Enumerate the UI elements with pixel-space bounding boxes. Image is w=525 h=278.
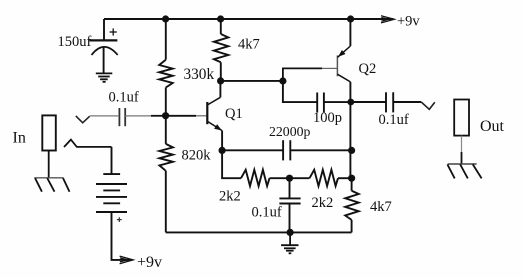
node collector 2k2 — [348, 175, 355, 182]
+9v arrow top — [381, 16, 394, 23]
svg-text:100p: 100p — [313, 110, 342, 126]
capacitor C 100p — [283, 81, 351, 112]
wire rail to 330k — [165, 19, 167, 60]
svg-text:Q1: Q1 — [225, 106, 243, 122]
wire hook down to battery — [111, 147, 113, 174]
node Q1 collector — [217, 77, 224, 84]
wire 4k7 to collector node — [220, 62, 222, 81]
In hook to battery — [64, 140, 112, 147]
svg-text:2k2: 2k2 — [312, 195, 334, 211]
node rail-4k7 — [217, 15, 224, 22]
wire Out sleeve to ground — [461, 136, 463, 164]
+9v arrow bottom — [120, 256, 134, 264]
svg-text:Out: Out — [480, 118, 505, 135]
svg-text:330k: 330k — [184, 66, 215, 83]
jack Out body — [454, 100, 469, 136]
node rail Q2 emitter — [347, 15, 354, 22]
wire base node to 820k — [165, 116, 167, 144]
resistor R 2k2 left — [241, 170, 270, 186]
capacitor C 0.1uf mid — [279, 178, 300, 232]
svg-text:820k: 820k — [182, 148, 212, 164]
output hook — [421, 102, 435, 109]
node 22000p right — [348, 147, 355, 154]
capacitor C 0.1uf input — [76, 108, 166, 126]
wire 2k2 right to collector line — [338, 177, 352, 179]
node Q2 base — [279, 77, 286, 84]
svg-text:Q2: Q2 — [359, 61, 377, 77]
node Q1 emitter — [219, 147, 226, 154]
resistor R 2k2 right — [310, 170, 339, 186]
svg-text:4k7: 4k7 — [238, 37, 260, 53]
wire center node to 2k2 right — [290, 177, 310, 179]
node Q2 collector output — [347, 99, 354, 106]
wire 150uf feed — [103, 19, 105, 40]
wire In sleeve to ground — [48, 151, 50, 178]
polarity plus battery — [117, 217, 122, 222]
capacitor C 22000p — [283, 140, 352, 160]
ground earth under 150uf — [96, 73, 113, 81]
svg-text:150uf: 150uf — [58, 34, 92, 50]
node Q1 base — [162, 112, 169, 119]
svg-text:+9v: +9v — [137, 254, 162, 271]
jack In body — [42, 115, 56, 150]
wire emitter to 22000p — [222, 149, 283, 151]
wire emitter down to 2k2 row — [222, 150, 241, 178]
svg-text:4k7: 4k7 — [370, 199, 392, 215]
wire bottom rail — [166, 231, 352, 233]
wire base node up to Q2 — [283, 68, 337, 81]
battery B1 9v — [96, 174, 127, 212]
wire 2k2 to center node — [270, 177, 290, 179]
wire +9v top rail — [104, 18, 393, 20]
resistor R 4k7 lower — [345, 178, 359, 232]
svg-text:In: In — [13, 130, 26, 147]
transistor Q2 — [337, 19, 350, 82]
node ground bottom — [287, 229, 294, 236]
svg-text:0.1uf: 0.1uf — [252, 205, 282, 221]
wire base node to Q1 — [166, 115, 207, 117]
wire 330k to base node — [165, 88, 167, 116]
wire battery to +9v arrow — [112, 212, 133, 260]
resistor R 4k7 upper — [214, 34, 228, 62]
svg-text:0.1uf: 0.1uf — [379, 112, 409, 128]
svg-text:+9v: +9v — [397, 14, 420, 30]
ground chassis Out — [447, 164, 481, 178]
capacitor C 150uf — [89, 40, 117, 73]
svg-text:2k2: 2k2 — [219, 189, 241, 205]
wire rail to 4k7 — [220, 19, 222, 34]
wire Q2 collector line — [349, 82, 351, 178]
svg-text:0.1uf: 0.1uf — [109, 90, 139, 106]
resistor R 330k — [159, 60, 173, 88]
ground chassis In — [34, 178, 69, 192]
wire Q1 collector to Q2 base node — [221, 80, 283, 82]
polarity plus 150uf — [110, 28, 117, 35]
node rail-330k — [162, 15, 169, 22]
transistor Q1 — [207, 81, 222, 150]
svg-text:22000p: 22000p — [269, 124, 310, 139]
resistor R 820k — [159, 144, 173, 171]
capacitor C 0.1uf output — [351, 92, 421, 112]
wire 820k to bottom rail — [165, 171, 167, 233]
ground earth bottom — [281, 232, 298, 253]
node center 2k2 — [286, 175, 293, 182]
